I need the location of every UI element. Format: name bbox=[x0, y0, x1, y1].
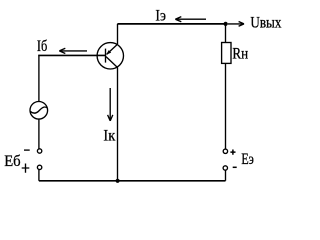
transistor VT1 (PNP, common base) bbox=[97, 43, 123, 69]
terminal: Eб upper (minus side) bbox=[37, 149, 41, 153]
terminal: Eб lower (plus side) bbox=[37, 165, 41, 169]
resistor Rн bbox=[222, 43, 231, 64]
svg-text:Eэ: Eэ bbox=[241, 151, 254, 168]
svg-text:Uвых: Uвых bbox=[250, 15, 281, 32]
polarity sign: Eэ minus bbox=[233, 166, 237, 168]
terminal: Eэ lower (minus side) bbox=[223, 166, 227, 170]
wire: generator to Eб plus terminal bbox=[38, 119, 40, 149]
wire: bottom rail bbox=[39, 180, 226, 182]
svg-text:Eб: Eб bbox=[4, 153, 21, 170]
wire: right branch bottom (Eэ terminal to bottom rail) bbox=[225, 170, 227, 181]
arrow: output voltage pointer to Uвых bbox=[228, 22, 244, 27]
wire: Eб terminal down to bottom rail bbox=[38, 170, 40, 181]
wire: collector vertical lead down to bottom rail bbox=[117, 68, 119, 181]
wire: left branch from base corner down to generator bbox=[38, 55, 40, 102]
node: output junction dot bbox=[224, 22, 228, 26]
arrow: Iк current direction (downward) bbox=[108, 88, 113, 121]
svg-text:Iб: Iб bbox=[37, 38, 47, 55]
polarity sign: Eэ plus bbox=[230, 150, 235, 155]
arrow: Iб current direction (leftward) bbox=[59, 48, 87, 53]
polarity sign: Eб plus bbox=[22, 164, 30, 173]
terminal: Eэ upper (plus side) bbox=[223, 149, 227, 153]
wire: base lead bbox=[38, 54, 105, 56]
wire: right branch between resistor and Eэ terminal bbox=[225, 64, 227, 150]
arrow: Iэ current direction (leftward) bbox=[175, 17, 206, 22]
source Eб: signal generator circle with sine bbox=[30, 102, 48, 120]
wire: emitter vertical lead bbox=[117, 24, 119, 44]
node: bottom rail collector junction dot bbox=[116, 179, 120, 183]
svg-text:Iк: Iк bbox=[103, 128, 115, 145]
wire: output node down to resistor bbox=[225, 24, 227, 43]
wire: top rail (emitter lead to output node) bbox=[117, 23, 225, 25]
svg-text:Rн: Rн bbox=[232, 46, 248, 63]
polarity sign: Eб minus bbox=[24, 149, 30, 151]
svg-text:Iэ: Iэ bbox=[155, 8, 166, 25]
